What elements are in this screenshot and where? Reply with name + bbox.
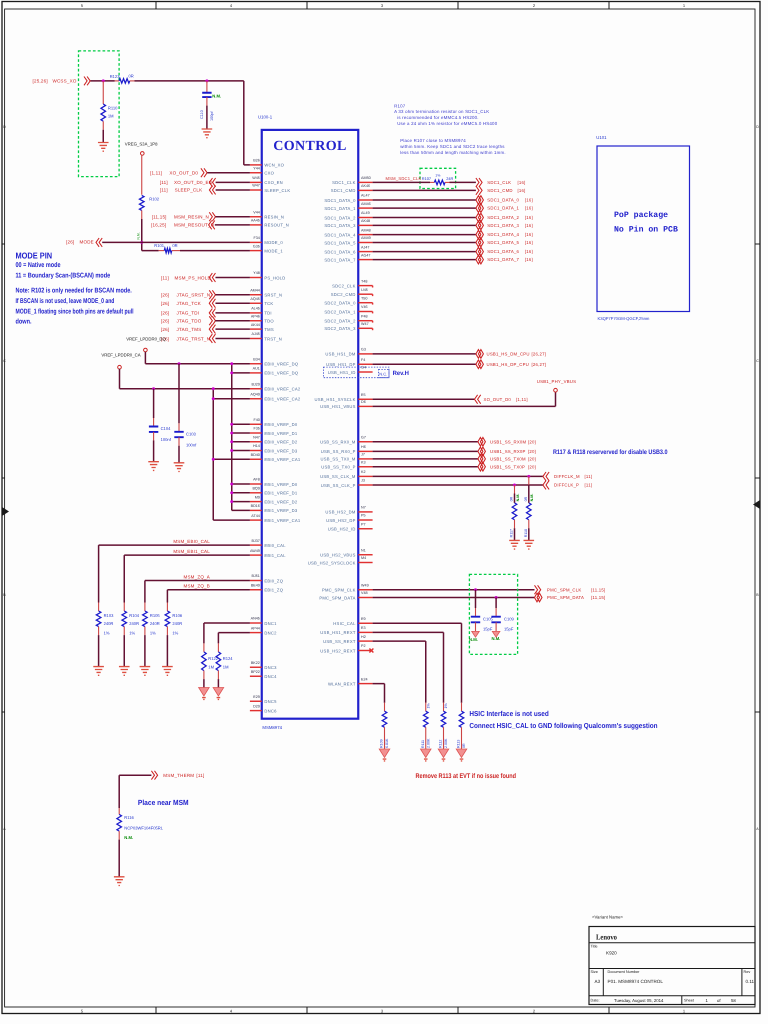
svg-text:[16]: [16] — [525, 223, 533, 228]
wire MSM_EBI0_CAL net — [99, 545, 250, 602]
svg-text:MSM_RESOUT_N: MSM_RESOUT_N — [174, 223, 214, 228]
svg-text:BJ29: BJ29 — [251, 382, 259, 386]
svg-text:R116: R116 — [124, 815, 134, 820]
svg-text:USB_HS1_REXT: USB_HS1_REXT — [320, 630, 356, 635]
power terminal VREF_LPDDR0_CA — [101, 352, 140, 369]
svg-text:EBI0_VREF_CA1: EBI0_VREF_CA1 — [264, 457, 300, 462]
resistor R103 240R 1% — [96, 603, 114, 667]
svg-text:R110: R110 — [108, 106, 118, 111]
IC U101 text PoP package / No Pin on PCB — [614, 211, 678, 235]
no-connect N.C. marker for USB_HS1_ID — [379, 369, 389, 377]
svg-text:K3: K3 — [361, 460, 366, 464]
IC U100-1 left-side pins with pin numbers — [250, 159, 301, 714]
svg-text:E5: E5 — [361, 393, 366, 397]
port SDC1_CMD [16] — [476, 186, 526, 195]
svg-text:BQ9: BQ9 — [252, 487, 259, 491]
svg-text:USB1_SS_RX0P: USB1_SS_RX0P — [490, 449, 526, 454]
svg-text:EBI1_VREF_D0: EBI1_VREF_D0 — [264, 482, 297, 487]
port SDC1_CLK [16] — [476, 178, 526, 187]
svg-text:R118: R118 — [524, 529, 528, 537]
pin ground under C109 — [492, 631, 500, 637]
svg-text:SDC1_DATA_4: SDC1_DATA_4 — [487, 232, 519, 237]
svg-text:Remove R113 at EVT if no issue: Remove R113 at EVT if no issue found — [416, 773, 517, 780]
resistor R110 1M (pulldown) — [101, 81, 118, 143]
svg-text:JTAG_SRST_N: JTAG_SRST_N — [177, 293, 211, 298]
svg-text:SDC1_DATA_1: SDC1_DATA_1 — [324, 206, 356, 211]
note MODE PIN explanation — [16, 250, 134, 325]
thermistor R116 NCP03WF104F05RL N.M. — [117, 808, 164, 877]
junctions on VREF_LPDDR0_CA trunk — [152, 387, 215, 461]
svg-text:E9: E9 — [361, 617, 366, 621]
svg-text:00 = Native mode: 00 = Native mode — [16, 262, 61, 269]
junction R118 tap — [527, 475, 530, 478]
svg-text:B34: B34 — [253, 357, 260, 361]
power terminal VREG_S3A_1P8 — [125, 141, 158, 155]
port SDC1_DATA_6 [16] — [476, 247, 533, 256]
svg-text:BK22: BK22 — [251, 661, 260, 665]
pin ground under R111 — [420, 749, 431, 758]
svg-text:K920: K920 — [606, 951, 617, 956]
svg-text:0.11: 0.11 — [746, 979, 755, 984]
svg-text:MSM_SDC1_CLK: MSM_SDC1_CLK — [386, 176, 422, 181]
svg-text:SDC1_CLK: SDC1_CLK — [487, 180, 511, 185]
svg-text:[16]: [16] — [525, 206, 533, 211]
svg-text:[26]: [26] — [66, 240, 74, 245]
wire VREF_LPDDR0_DQ net with trunk to EBI VREF D pins — [145, 352, 250, 511]
svg-text:TCK: TCK — [264, 301, 273, 306]
svg-text:MODE PIN: MODE PIN — [16, 250, 53, 260]
svg-text:USB_HS2_DP: USB_HS2_DP — [326, 518, 356, 523]
svg-text:USB_SS_REXT: USB_SS_REXT — [323, 639, 356, 644]
svg-text:0R: 0R — [524, 496, 528, 501]
wire SDC1_CMD net — [373, 189, 476, 191]
svg-text:USB_HS1_DM: USB_HS1_DM — [325, 352, 356, 357]
junction C109 tap — [495, 596, 498, 599]
port SDC1_DATA_1 [16] — [476, 204, 533, 213]
resistor R111 2.00K — [421, 703, 431, 749]
pin ground under R124 — [213, 688, 224, 697]
svg-text:Size: Size — [591, 970, 598, 974]
port SDC1_DATA_5 [16] — [476, 238, 533, 247]
svg-text:USB_SS_TX0_P: USB_SS_TX0_P — [321, 465, 355, 470]
svg-text:MODE_1 floating since both pin: MODE_1 floating since both pins are defa… — [16, 308, 134, 315]
capacitor C103 100nf — [174, 364, 197, 463]
svg-text:CXO: CXO — [264, 171, 274, 176]
svg-text:WCN_XO: WCN_XO — [264, 163, 284, 168]
pin ground under R112 — [438, 749, 449, 758]
port SDC1_DATA_3 [16] — [476, 221, 533, 230]
capacitor C110 100pf N.M. — [200, 81, 221, 129]
svg-text:SDC1_DATA_5: SDC1_DATA_5 — [487, 240, 519, 245]
svg-text:T48: T48 — [361, 279, 367, 283]
svg-text:If BSCAN is not used, leave MO: If BSCAN is not used, leave MODE_0 and — [16, 298, 115, 305]
port MODE sheet connector [26] — [66, 238, 102, 247]
resistor R105 240R 1% — [143, 603, 161, 667]
svg-text:AM46: AM46 — [361, 202, 371, 206]
svg-text:[20]: [20] — [528, 464, 536, 469]
ground under R106 — [162, 667, 173, 676]
ground under C110 — [202, 129, 213, 138]
wire SDC1_DATA_1 net — [373, 207, 476, 209]
svg-text:Tuesday, August 05, 2014: Tuesday, August 05, 2014 — [614, 998, 664, 1003]
svg-text:[16,25]: [16,25] — [151, 223, 166, 228]
svg-text:DNC6: DNC6 — [264, 708, 277, 713]
svg-text:[26]: [26] — [161, 293, 169, 298]
capacitor C109 15pF N.M. — [491, 598, 514, 642]
svg-text:G3: G3 — [361, 348, 366, 352]
svg-text:[11]: [11] — [161, 275, 169, 280]
port MSM_RESOUT_N [16,25] — [151, 221, 215, 230]
wire SDC1_DATA_7 net — [373, 259, 476, 261]
svg-text:PMC_SPM_CLK: PMC_SPM_CLK — [322, 588, 356, 593]
svg-text:V46: V46 — [361, 305, 368, 309]
svg-text:EBI1_VREF_CA2: EBI1_VREF_CA2 — [264, 397, 300, 402]
resistor R109 6.81K — [380, 703, 390, 749]
svg-text:R101: R101 — [154, 243, 165, 248]
wire WCSS_XO net: horizontal run, drop to WCN_XO pin — [91, 81, 250, 165]
pin ground under C105 — [472, 631, 480, 637]
svg-text:[20]: [20] — [528, 439, 536, 444]
wire PMC_SPM_DATA net — [373, 597, 535, 599]
svg-text:Rev.H: Rev.H — [393, 370, 410, 377]
svg-text:C110: C110 — [200, 110, 204, 119]
green dashed emphasis box around R107 — [420, 168, 456, 188]
ground under R116 — [114, 877, 125, 886]
wire SDC1_DATA_3 net — [373, 224, 476, 226]
port XO_OUT_D0_EN [11] — [160, 178, 216, 187]
svg-text:Title: Title — [591, 945, 598, 949]
svg-text:R107: R107 — [422, 176, 431, 181]
svg-text:P01. MSM8974 CONTROL: P01. MSM8974 CONTROL — [608, 979, 664, 984]
svg-text:W45: W45 — [252, 176, 260, 180]
svg-text:R102: R102 — [149, 196, 160, 201]
svg-text:SDC2_DATA_0: SDC2_DATA_0 — [324, 301, 356, 306]
svg-text:JTAG_TCK: JTAG_TCK — [177, 301, 201, 306]
svg-text:A 33 ohm termination resistor: A 33 ohm termination resistor on SDC1_CL… — [394, 109, 489, 114]
svg-text:[16]: [16] — [525, 240, 533, 245]
svg-text:R103: R103 — [104, 613, 115, 618]
svg-text:USB1_SS_TX0M: USB1_SS_TX0M — [490, 457, 526, 462]
svg-text:Y48: Y48 — [253, 271, 260, 275]
svg-text:U101: U101 — [596, 135, 607, 140]
svg-text:M9: M9 — [255, 495, 260, 499]
svg-text:SDC2_DATA_2: SDC2_DATA_2 — [324, 319, 356, 324]
svg-text:R104: R104 — [129, 613, 140, 618]
port USB1_SS_RX0P [20] — [478, 447, 536, 456]
svg-text:DNC4: DNC4 — [264, 674, 277, 679]
svg-text:R123: R123 — [110, 74, 121, 79]
svg-text:[11]: [11] — [196, 773, 204, 778]
svg-text:USB_HS1_SYSCLK: USB_HS1_SYSCLK — [314, 397, 355, 402]
svg-text:AL45: AL45 — [251, 307, 260, 311]
port SLEEP_CLK [11] — [160, 186, 216, 195]
svg-text:SRST_N: SRST_N — [264, 293, 282, 298]
ground under R117 — [509, 540, 520, 549]
svg-text:W47: W47 — [361, 322, 369, 326]
svg-text:MODE_1: MODE_1 — [264, 248, 283, 253]
port USB1_SS_TX0P [20] — [478, 462, 536, 471]
wire SDC1_CLK net — [373, 181, 476, 183]
svg-text:USB1_SS_RX0M: USB1_SS_RX0M — [490, 439, 527, 444]
svg-text:J7: J7 — [361, 453, 365, 457]
svg-text:Connect HSIC_CAL to GND follow: Connect HSIC_CAL to GND following Qualco… — [469, 721, 657, 730]
port XO_OUT_D0 [1,11] (right) — [475, 395, 528, 404]
wire USB_HS1_SYSCLK net — [373, 398, 475, 400]
port SDC1_DATA_4 [16] — [476, 230, 533, 239]
wire MSM_THERM to R116 — [119, 775, 151, 808]
port MSM_PS_HOLD [11] — [161, 273, 216, 282]
svg-text:G7: G7 — [361, 435, 366, 439]
wire USB_SS_RX0_P net — [373, 450, 478, 452]
wire DNC1 net to R122 — [204, 623, 250, 643]
wire JTAG_TDO to pin — [215, 320, 249, 322]
wire USB_SS_RX0_M net — [373, 441, 478, 443]
svg-text:VREF_LPDDR0_DQ: VREF_LPDDR0_DQ — [126, 336, 166, 341]
svg-text:EBI1_VREF_D2: EBI1_VREF_D2 — [264, 499, 297, 504]
svg-text:P7: P7 — [361, 522, 366, 526]
svg-text:SDC1_DATA_0: SDC1_DATA_0 — [487, 198, 519, 203]
svg-text:2.00K: 2.00K — [426, 738, 430, 748]
svg-text:USB_HS2_ID: USB_HS2_ID — [328, 527, 356, 532]
resistor R104 240R 1% — [122, 603, 140, 667]
svg-text:EBI0_VREF_D2: EBI0_VREF_D2 — [264, 440, 297, 445]
svg-text:Lenovo: Lenovo — [596, 933, 617, 942]
note R107 termination resistor text — [394, 104, 506, 156]
svg-text:N.M.: N.M. — [516, 494, 520, 502]
svg-text:BD16: BD16 — [251, 504, 260, 508]
svg-text:WLAN_REXT: WLAN_REXT — [328, 681, 356, 686]
svg-text:E3: E3 — [361, 626, 366, 630]
svg-text:MSM_RESIN_N: MSM_RESIN_N — [174, 215, 209, 220]
svg-text:AW49: AW49 — [250, 549, 260, 553]
green dashed emphasis box around C105/C109 — [469, 574, 517, 654]
svg-text:XO_OUT_D0: XO_OUT_D0 — [484, 397, 512, 402]
port USB1_SS_RX0M [20] — [478, 437, 536, 446]
svg-text:TDI: TDI — [264, 311, 271, 316]
resistor R117 0R N.M. — [510, 485, 520, 540]
svg-text:C104: C104 — [161, 426, 172, 431]
ground under R103 — [93, 667, 104, 676]
svg-text:Place R107 close to MSM8974: Place R107 close to MSM8974 — [400, 138, 466, 143]
svg-text:EBI1_VREF_D1: EBI1_VREF_D1 — [264, 491, 297, 496]
svg-text:EBI0_VREF_DQ: EBI0_VREF_DQ — [264, 362, 298, 367]
svg-text:R113: R113 — [457, 740, 461, 748]
svg-text:TRST_N: TRST_N — [264, 336, 282, 341]
svg-text:JTAG_TDO: JTAG_TDO — [177, 319, 202, 324]
svg-text:AQ49: AQ49 — [250, 392, 259, 396]
svg-text:AM44: AM44 — [250, 288, 260, 292]
wire SDC1_DATA_2 net — [373, 217, 476, 219]
wire USB_SS_TX0_P net — [373, 466, 478, 468]
svg-text:[25,26]: [25,26] — [33, 79, 48, 84]
wire XO_OUT_D0_EN to CXO_EN — [216, 181, 250, 183]
svg-text:R117: R117 — [510, 529, 514, 537]
svg-text:SDC1_DATA_5: SDC1_DATA_5 — [324, 240, 356, 245]
svg-text:AL49: AL49 — [361, 211, 370, 215]
no-connect dashed box around USB_HS1_ID pin — [324, 367, 390, 378]
svg-text:1%: 1% — [172, 630, 178, 635]
svg-text:240R: 240R — [150, 621, 160, 626]
svg-text:DIFFCLK_P: DIFFCLK_P — [554, 483, 579, 488]
svg-text:SDC2_CMD: SDC2_CMD — [331, 292, 356, 297]
resistor R113 0R — [457, 703, 467, 749]
junction at C110 tap — [205, 79, 208, 82]
svg-text:JTAG_TRST_N: JTAG_TRST_N — [177, 336, 211, 341]
IC U100-1 right-side pins with pin numbers — [308, 176, 373, 686]
svg-text:HSIC_CAL: HSIC_CAL — [333, 621, 356, 626]
svg-text:P2: P2 — [361, 644, 366, 648]
svg-text:EBI0_VREF_D3: EBI0_VREF_D3 — [264, 448, 297, 453]
svg-text:USB_SS_CLK_P: USB_SS_CLK_P — [321, 483, 356, 488]
svg-text:J3: J3 — [361, 479, 365, 483]
resistor R106 240R 1% — [165, 603, 183, 667]
svg-text:is recommended for eMMC4.5 HS2: is recommended for eMMC4.5 HS200. — [397, 115, 479, 120]
resistor R102 — [136, 195, 159, 239]
svg-text:MSM_PS_HOLD: MSM_PS_HOLD — [175, 275, 212, 280]
wire USB_SS_CLK_P net — [373, 484, 543, 486]
svg-text:Sheet: Sheet — [684, 999, 695, 1003]
svg-text:Rev: Rev — [744, 970, 751, 974]
svg-text:F34: F34 — [253, 236, 259, 240]
svg-text:AJ47: AJ47 — [361, 245, 369, 249]
port JTAG_TCK [26] — [161, 299, 216, 308]
svg-text:15pF: 15pF — [483, 626, 493, 631]
svg-text:VREF_LPDDR0_CA: VREF_LPDDR0_CA — [101, 352, 140, 357]
svg-text:1%: 1% — [444, 703, 448, 709]
port JTAG_TRST_N [26] — [161, 334, 216, 343]
svg-text:[11]: [11] — [160, 180, 168, 185]
port DIFFCLK_M [11] — [543, 472, 592, 481]
wire WLAN_REXT net — [373, 684, 385, 703]
svg-text:AN45: AN45 — [251, 617, 260, 621]
wire USB_HS1_REXT net — [373, 632, 444, 702]
svg-text:EBI1_VREF_CA1: EBI1_VREF_CA1 — [264, 518, 300, 523]
wire JTAG_TRST_N to pin — [215, 338, 249, 340]
svg-text:MSM_THERM: MSM_THERM — [163, 773, 194, 778]
svg-text:P48: P48 — [361, 314, 368, 318]
port SDC1_DATA_7 [16] — [476, 255, 533, 264]
svg-text:AT44: AT44 — [251, 514, 260, 518]
wire SDC1_DATA_5 net — [373, 242, 476, 244]
svg-text:USB1_HS_DM_CPU: USB1_HS_DM_CPU — [487, 352, 530, 357]
svg-text:MSM_ZQ_A: MSM_ZQ_A — [183, 574, 210, 579]
svg-text:[11]: [11] — [585, 474, 593, 479]
svg-text:[26,27]: [26,27] — [532, 352, 547, 357]
svg-text:100pf: 100pf — [210, 111, 214, 121]
svg-text:PoP package: PoP package — [614, 211, 668, 220]
green dashed emphasis box around R123/R110 — [79, 51, 120, 177]
svg-text:NCP03WF104F05RL: NCP03WF104F05RL — [124, 825, 163, 830]
resistor R112 2.00K — [439, 703, 449, 749]
wire MSM_ZQ_A net — [145, 581, 250, 603]
resistor R107 24R 1% (series termination) — [422, 174, 454, 185]
svg-text:N47: N47 — [253, 435, 260, 439]
svg-text:D29: D29 — [253, 704, 260, 708]
capacitor C105 15pF N.M. — [469, 590, 494, 642]
svg-text:100nf: 100nf — [186, 442, 197, 447]
svg-text:RESOUT_N: RESOUT_N — [264, 223, 289, 228]
svg-text:Y44: Y44 — [253, 166, 260, 170]
svg-text:R107: R107 — [394, 104, 406, 109]
resistor R122 1M — [202, 643, 219, 687]
svg-text:Date:: Date: — [591, 999, 600, 1003]
svg-text:EBI0_CAL: EBI0_CAL — [264, 543, 286, 548]
svg-text:USB_SS_RX0_M: USB_SS_RX0_M — [320, 440, 356, 445]
svg-text:BD40: BD40 — [251, 453, 260, 457]
svg-text:[16]: [16] — [525, 257, 533, 262]
wire USB_HS1_DM net — [373, 353, 476, 355]
wire MSM_RESOUT_N to RESOUT_N — [215, 224, 250, 226]
svg-text:0R: 0R — [129, 74, 134, 79]
svg-text:USB_HS1_DP: USB_HS1_DP — [326, 362, 356, 367]
svg-text:D: D — [3, 125, 6, 129]
svg-text:D6: D6 — [361, 400, 366, 404]
ground under C104 — [148, 462, 159, 471]
svg-text:W47: W47 — [252, 184, 260, 188]
svg-text:AK44: AK44 — [251, 323, 260, 327]
svg-text:[11]: [11] — [585, 483, 593, 488]
svg-text:SDC1_DATA_1: SDC1_DATA_1 — [487, 206, 519, 211]
svg-text:[11,15]: [11,15] — [152, 215, 167, 220]
power terminal VREF_LPDDR0_DQ — [126, 336, 166, 351]
svg-text:R124: R124 — [223, 656, 234, 661]
svg-text:R106: R106 — [172, 613, 183, 618]
resistor R118 0R N.M. — [524, 476, 534, 540]
svg-text:USB1_HS_DP_CPU: USB1_HS_DP_CPU — [487, 362, 529, 367]
svg-text:1%: 1% — [150, 630, 156, 635]
svg-text:EBI1_CAL: EBI1_CAL — [264, 553, 286, 558]
svg-text:AK48: AK48 — [361, 219, 370, 223]
svg-text:H14: H14 — [253, 444, 260, 448]
svg-text:SDC2_DATA_1: SDC2_DATA_1 — [324, 309, 356, 314]
svg-text:[26]: [26] — [161, 311, 169, 316]
wire JTAG_TMS to pin — [215, 328, 249, 330]
svg-text:DNC5: DNC5 — [264, 699, 277, 704]
svg-text:MODE: MODE — [80, 240, 94, 245]
svg-text:[26]: [26] — [161, 301, 169, 306]
svg-text:[26]: [26] — [161, 327, 169, 332]
svg-text:0R: 0R — [510, 496, 514, 501]
svg-text:XO_OUT_D0_EN: XO_OUT_D0_EN — [174, 180, 212, 185]
svg-text:R112: R112 — [439, 740, 443, 748]
ground under R104 — [119, 667, 130, 676]
svg-text:Place near MSM: Place near MSM — [138, 798, 189, 807]
svg-text:240R: 240R — [172, 621, 182, 626]
wire JTAG_TDI to pin — [215, 312, 249, 314]
svg-text:RESIN_N: RESIN_N — [264, 215, 284, 220]
wire JTAG_SRST_N to pin — [215, 294, 249, 296]
svg-text:1%: 1% — [435, 174, 440, 178]
wire SLEEP_CLK to pin — [216, 189, 250, 191]
svg-text:EBI1_VREF_D3: EBI1_VREF_D3 — [264, 508, 297, 513]
svg-text:PMC_SPM_DATA: PMC_SPM_DATA — [547, 595, 584, 600]
svg-text:DIFFCLK_M: DIFFCLK_M — [554, 474, 580, 479]
svg-text:[26,27]: [26,27] — [532, 362, 547, 367]
svg-text:U100-1: U100-1 — [258, 115, 273, 120]
svg-text:BJ37: BJ37 — [251, 539, 259, 543]
svg-text:within 5mm. Keep SDC1 and SDC2: within 5mm. Keep SDC1 and SDC2 trace len… — [400, 144, 505, 149]
svg-text:JTAG_TDI: JTAG_TDI — [177, 311, 200, 316]
svg-text:EBI0_VREF_D0: EBI0_VREF_D0 — [264, 422, 297, 427]
wire HSIC_CAL net — [373, 623, 462, 702]
svg-text:MSM_ZQ_B: MSM_ZQ_B — [183, 584, 210, 589]
svg-text:SDC1_DATA_2: SDC1_DATA_2 — [487, 215, 519, 220]
svg-text:SDC1_DATA_4: SDC1_DATA_4 — [324, 232, 356, 237]
resistor R124 1M — [216, 643, 233, 687]
svg-text:11 = Boundary Scan-(BSCAN) mod: 11 = Boundary Scan-(BSCAN) mode — [16, 272, 111, 279]
ground under C103 — [174, 463, 185, 472]
svg-text:DNC1: DNC1 — [264, 621, 277, 626]
